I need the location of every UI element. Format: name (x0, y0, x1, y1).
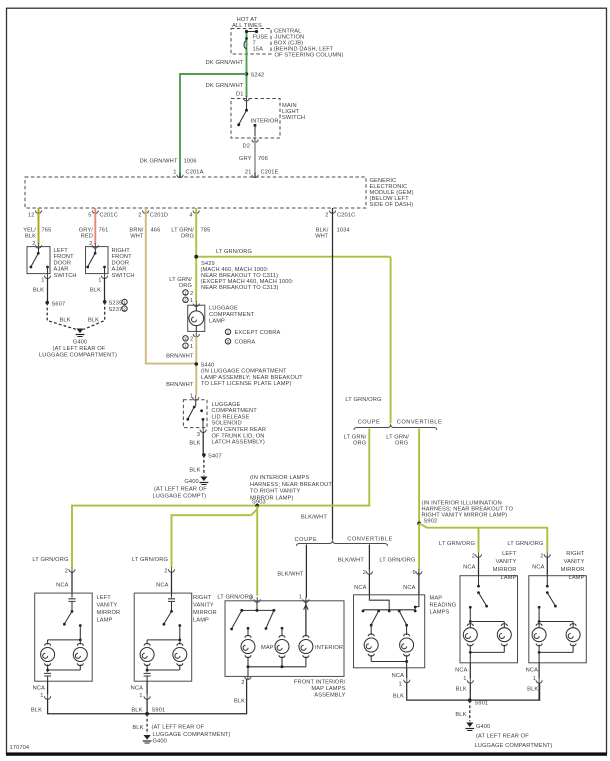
svg-text:LUGGAGE COMPARTMENT): LUGGAGE COMPARTMENT) (475, 743, 553, 749)
svg-text:BRN/WHT: BRN/WHT (166, 382, 194, 388)
svg-text:HARNESS; NEAR BREAKOUT: HARNESS; NEAR BREAKOUT (250, 482, 332, 488)
svg-text:COUPE: COUPE (295, 537, 318, 543)
svg-text:S242: S242 (251, 73, 265, 79)
svg-text:VANITY: VANITY (496, 559, 517, 565)
svg-text:BLK/WHT: BLK/WHT (338, 558, 365, 564)
svg-text:D1: D1 (236, 92, 244, 98)
svg-text:SWITCH: SWITCH (282, 115, 305, 121)
svg-text:LAMP ASSEMBLY; NEAR BREAKOUT: LAMP ASSEMBLY; NEAR BREAKOUT (201, 375, 303, 381)
svg-text:466: 466 (151, 228, 161, 234)
svg-text:WHT: WHT (130, 234, 144, 240)
svg-text:2: 2 (472, 554, 475, 560)
svg-text:2: 2 (190, 337, 193, 343)
svg-text:BLK: BLK (456, 687, 467, 693)
svg-text:READING: READING (430, 603, 457, 609)
svg-text:1: 1 (190, 298, 193, 304)
svg-text:VANITY: VANITY (564, 559, 585, 565)
svg-text:761: 761 (99, 228, 109, 234)
svg-text:BLK: BLK (31, 707, 42, 713)
svg-text:S901: S901 (475, 701, 489, 707)
svg-text:MAP LAMPS: MAP LAMPS (311, 686, 345, 692)
svg-text:785: 785 (201, 228, 211, 234)
svg-text:MAP: MAP (430, 596, 443, 602)
svg-text:(AT LEFT REAR OF: (AT LEFT REAR OF (53, 346, 106, 352)
svg-text:DK GRN/WHT: DK GRN/WHT (206, 60, 244, 66)
svg-text:C201A: C201A (186, 170, 204, 176)
svg-text:1: 1 (41, 278, 44, 284)
svg-text:2: 2 (138, 213, 141, 219)
svg-text:ORG: ORG (179, 283, 192, 289)
svg-text:NCA: NCA (33, 686, 45, 692)
svg-text:G400: G400 (73, 340, 87, 346)
svg-text:12: 12 (28, 213, 35, 219)
svg-text:MIRROR: MIRROR (97, 610, 121, 616)
svg-text:LUGGAGE COMPARTMENT): LUGGAGE COMPARTMENT) (39, 353, 117, 359)
svg-text:COBRA: COBRA (235, 340, 256, 346)
svg-text:BLK: BLK (33, 288, 44, 294)
svg-text:2: 2 (65, 569, 68, 575)
svg-text:MIRROR: MIRROR (193, 610, 217, 616)
svg-text:LT GRN/ORG: LT GRN/ORG (345, 397, 381, 403)
svg-text:706: 706 (258, 156, 268, 162)
svg-text:RIGHT: RIGHT (112, 248, 131, 254)
svg-text:(IN INTERIOR LAMPS: (IN INTERIOR LAMPS (250, 475, 309, 481)
svg-text:NCA: NCA (403, 585, 415, 591)
svg-text:1: 1 (399, 681, 402, 687)
svg-text:LAMP: LAMP (501, 575, 517, 581)
svg-text:INTERIOR: INTERIOR (315, 645, 343, 651)
svg-text:ORG: ORG (353, 440, 366, 446)
svg-text:VANITY: VANITY (97, 603, 118, 609)
svg-text:15A: 15A (253, 47, 264, 53)
svg-text:NCA: NCA (532, 565, 544, 571)
svg-text:1: 1 (463, 676, 466, 682)
svg-text:SOLENOID: SOLENOID (212, 421, 242, 427)
svg-text:LAMP: LAMP (569, 575, 585, 581)
svg-text:WHT: WHT (315, 234, 329, 240)
svg-text:LT GRN/ORG: LT GRN/ORG (216, 249, 252, 255)
svg-text:DK GRN/WHT: DK GRN/WHT (206, 83, 244, 89)
svg-text:AJAR: AJAR (112, 267, 127, 273)
svg-text:TO RIGHT VANITY: TO RIGHT VANITY (250, 489, 301, 495)
svg-text:S239: S239 (109, 301, 123, 307)
svg-text:MIRROR: MIRROR (561, 567, 585, 573)
svg-text:BLK: BLK (59, 318, 70, 324)
svg-text:(AT LEFT REAR OF: (AT LEFT REAR OF (154, 487, 207, 493)
svg-text:S901: S901 (152, 707, 166, 713)
svg-text:1: 1 (533, 676, 536, 682)
svg-text:LUGGAGE COMPARTMENT): LUGGAGE COMPARTMENT) (153, 732, 231, 738)
svg-text:S902: S902 (424, 519, 438, 525)
svg-text:NEAR BREAKOUT TO C313): NEAR BREAKOUT TO C313) (201, 285, 279, 291)
svg-text:BLK: BLK (527, 687, 538, 693)
svg-text:BLK/WHT: BLK/WHT (277, 572, 304, 578)
svg-text:1: 1 (190, 344, 193, 350)
svg-text:LAMP: LAMP (97, 618, 113, 624)
svg-text:21: 21 (245, 170, 252, 176)
svg-text:NCA: NCA (156, 583, 168, 589)
svg-text:1034: 1034 (337, 228, 350, 234)
svg-text:LT GRN/ORG: LT GRN/ORG (32, 557, 68, 563)
svg-text:SIDE OF DASH): SIDE OF DASH) (370, 202, 414, 208)
svg-text:FRONT: FRONT (112, 254, 133, 260)
svg-text:(IN LUGGAGE COMPARTMENT: (IN LUGGAGE COMPARTMENT (201, 369, 287, 375)
svg-text:MIRROR: MIRROR (493, 567, 517, 573)
svg-text:5: 5 (88, 213, 91, 219)
svg-text:AJAR: AJAR (54, 267, 69, 273)
svg-text:C201C: C201C (337, 213, 355, 219)
svg-text:NCA: NCA (354, 585, 366, 591)
svg-text:G400: G400 (184, 479, 198, 485)
svg-text:6: 6 (413, 570, 416, 576)
svg-text:FRONT: FRONT (54, 254, 75, 260)
svg-text:4: 4 (189, 213, 192, 219)
svg-text:NCA: NCA (455, 667, 467, 673)
svg-text:S407: S407 (208, 454, 222, 460)
svg-text:G400: G400 (476, 724, 490, 730)
svg-text:BLK: BLK (25, 234, 36, 240)
svg-text:BRN/WHT: BRN/WHT (166, 354, 194, 360)
svg-text:RIGHT: RIGHT (566, 551, 585, 557)
svg-text:1006: 1006 (184, 159, 197, 165)
svg-text:LT GRN/ORG: LT GRN/ORG (217, 595, 253, 601)
svg-text:NCA: NCA (463, 565, 475, 571)
svg-text:ORG: ORG (395, 440, 408, 446)
svg-text:BLK: BLK (90, 288, 101, 294)
svg-text:170704: 170704 (10, 745, 30, 751)
svg-text:LID RELEASE: LID RELEASE (212, 414, 250, 420)
svg-text:D2: D2 (242, 144, 250, 150)
svg-text:FRONT INTERIOR/: FRONT INTERIOR/ (294, 680, 346, 686)
svg-text:DK GRN/WHT: DK GRN/WHT (140, 159, 178, 165)
svg-text:LUGGAGE: LUGGAGE (209, 306, 238, 312)
svg-text:COUPE: COUPE (358, 419, 381, 425)
svg-text:OF TRUNK LID, ON: OF TRUNK LID, ON (212, 433, 265, 439)
svg-text:GRY: GRY (239, 156, 252, 162)
svg-text:ASSEMBLY: ASSEMBLY (314, 693, 345, 699)
svg-text:NCA: NCA (526, 667, 538, 673)
svg-text:LT GRN/ORG: LT GRN/ORG (132, 557, 168, 563)
svg-text:CONVERTIBLE: CONVERTIBLE (347, 537, 393, 543)
svg-text:LT GRN/ORG: LT GRN/ORG (379, 558, 415, 564)
svg-text:2: 2 (325, 213, 328, 219)
svg-text:C201E: C201E (261, 170, 279, 176)
svg-text:SWITCH: SWITCH (54, 273, 77, 279)
svg-text:1: 1 (40, 693, 43, 699)
svg-text:2: 2 (164, 569, 167, 575)
svg-text:BLK: BLK (393, 693, 404, 699)
svg-text:BLK: BLK (234, 699, 245, 705)
svg-text:RIGHT: RIGHT (193, 595, 212, 601)
svg-text:LT GRN/ORG: LT GRN/ORG (507, 541, 543, 547)
svg-text:(AT LEFT REAR OF: (AT LEFT REAR OF (152, 725, 205, 731)
svg-text:LEFT: LEFT (54, 248, 69, 254)
svg-text:NCA: NCA (392, 673, 404, 679)
svg-text:G400: G400 (153, 739, 167, 745)
svg-text:C201D: C201D (150, 213, 168, 219)
svg-text:NCA: NCA (131, 686, 143, 692)
svg-text:LUGGAGE COMPT): LUGGAGE COMPT) (153, 494, 207, 500)
svg-text:S607: S607 (52, 302, 66, 308)
svg-text:BLK: BLK (88, 318, 99, 324)
svg-text:LUGGAGE: LUGGAGE (212, 402, 241, 408)
svg-text:BLK/WHT: BLK/WHT (301, 515, 328, 521)
svg-text:LT GRN/ORG: LT GRN/ORG (439, 541, 475, 547)
svg-text:INTERIOR: INTERIOR (251, 119, 279, 125)
svg-text:COMPARTMENT: COMPARTMENT (212, 408, 258, 414)
svg-text:MAP: MAP (261, 645, 274, 651)
svg-text:1: 1 (139, 693, 142, 699)
svg-text:EXCEPT COBRA: EXCEPT COBRA (235, 330, 281, 336)
svg-text:LEFT: LEFT (502, 551, 517, 557)
svg-text:RED: RED (81, 234, 93, 240)
svg-text:VANITY: VANITY (193, 603, 214, 609)
svg-text:2: 2 (540, 554, 543, 560)
svg-text:ORG: ORG (181, 234, 194, 240)
svg-text:LAMP: LAMP (209, 319, 225, 325)
svg-text:BLK: BLK (131, 707, 142, 713)
svg-text:CONVERTIBLE: CONVERTIBLE (397, 419, 443, 425)
svg-text:BLK: BLK (455, 712, 466, 718)
svg-text:BLK: BLK (189, 441, 200, 447)
svg-text:2: 2 (241, 680, 244, 686)
svg-text:1: 1 (98, 278, 101, 284)
svg-text:LEFT: LEFT (97, 595, 112, 601)
svg-text:LAMPS: LAMPS (430, 610, 450, 616)
svg-text:LAMP: LAMP (193, 618, 209, 624)
svg-text:LATCH ASSEMBLY): LATCH ASSEMBLY) (212, 440, 265, 446)
svg-text:1: 1 (299, 595, 302, 601)
svg-text:1: 1 (173, 170, 176, 176)
svg-text:SWITCH: SWITCH (112, 273, 135, 279)
svg-text:3: 3 (197, 432, 200, 438)
svg-text:TO LEFT LICENSE PLATE LAMP): TO LEFT LICENSE PLATE LAMP) (201, 381, 291, 387)
svg-text:NCA: NCA (56, 583, 68, 589)
svg-text:(AT LEFT REAR OF: (AT LEFT REAR OF (476, 734, 529, 740)
svg-text:DOOR: DOOR (54, 260, 72, 266)
svg-text:S903: S903 (252, 500, 266, 506)
svg-text:DOOR: DOOR (112, 260, 130, 266)
svg-text:S237: S237 (109, 307, 123, 313)
svg-text:2: 2 (363, 570, 366, 576)
svg-text:C201C: C201C (100, 213, 118, 219)
svg-text:765: 765 (42, 228, 52, 234)
svg-text:(ON CENTER REAR: (ON CENTER REAR (212, 427, 267, 433)
svg-text:2: 2 (190, 291, 193, 297)
svg-text:BLK: BLK (189, 468, 200, 474)
svg-text:COMPARTMENT: COMPARTMENT (209, 312, 255, 318)
svg-text:BLK: BLK (132, 725, 143, 731)
svg-text:OF STEERING COLUMN): OF STEERING COLUMN) (275, 53, 344, 59)
